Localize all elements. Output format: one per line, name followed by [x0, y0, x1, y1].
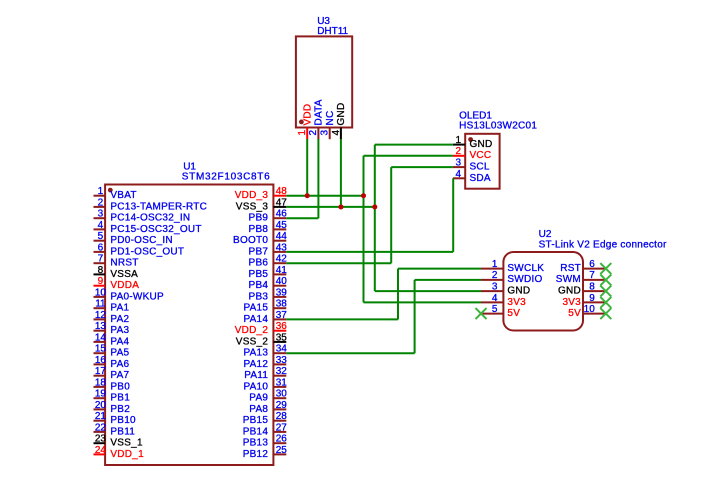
U1 pin 2 (PC13-TAMPER-RTC) [94, 197, 208, 212]
U2 pin 10 (5V) [568, 304, 606, 319]
U1 pin 17 (PA7) [94, 366, 130, 381]
U1 pin 15 (PA5) [94, 344, 130, 359]
svg-text:SDA: SDA [470, 173, 491, 184]
svg-text:8: 8 [98, 265, 104, 276]
svg-text:PA7: PA7 [110, 370, 129, 381]
svg-text:GND: GND [470, 139, 493, 150]
svg-text:PC15-OSC32_OUT: PC15-OSC32_OUT [110, 224, 201, 235]
svg-text:PB1: PB1 [110, 393, 130, 404]
U1 pin 48 (VDD_3) [235, 186, 288, 201]
svg-text:PC14-OSC32_IN: PC14-OSC32_IN [110, 213, 190, 224]
svg-text:VDD_3: VDD_3 [235, 190, 269, 201]
svg-text:PB14: PB14 [243, 426, 269, 437]
U1 pin 22 (PB11) [94, 422, 136, 437]
svg-text:SWM: SWM [556, 274, 581, 285]
svg-text:8: 8 [589, 282, 595, 293]
svg-text:9: 9 [589, 293, 595, 304]
sensor U3 DHT11 [296, 36, 352, 127]
U1 pin 44 (BOOT0) [233, 231, 287, 246]
U1 pin 21 (PB10) [94, 411, 137, 426]
svg-text:23: 23 [95, 434, 107, 445]
svg-text:5: 5 [98, 231, 104, 242]
svg-text:VDD_2: VDD_2 [235, 325, 269, 336]
svg-text:21: 21 [95, 411, 107, 422]
svg-text:5V: 5V [507, 308, 520, 319]
U1 pin 29 (PA8) [249, 400, 287, 415]
OLED1 pin 3 (SCL) [453, 158, 490, 173]
svg-text:22: 22 [95, 422, 107, 433]
svg-text:32: 32 [276, 366, 288, 377]
svg-text:45: 45 [276, 220, 288, 231]
junction GND at DHT11 GND tap [338, 204, 343, 209]
wire net SDA: to U1 pin43 PB7 [286, 251, 453, 253]
OLED1 pin 2 (VCC) [453, 146, 491, 161]
svg-text:GND: GND [558, 286, 581, 297]
U2 pin 4 (3V3) [481, 293, 526, 308]
svg-text:33: 33 [276, 355, 288, 366]
wire net VDD_3: riser to U2 pin4 3V3 [364, 301, 482, 303]
U1 pin 8 (VSSA) [94, 265, 139, 280]
wire net DHT_DATA: to U1 pin46 PB9 [286, 217, 318, 219]
svg-text:PA15: PA15 [243, 303, 268, 314]
U1 pin 28 (PB15) [243, 411, 288, 426]
svg-text:16: 16 [95, 355, 107, 366]
svg-text:26: 26 [276, 434, 288, 445]
svg-text:2: 2 [456, 146, 462, 157]
svg-text:PB7: PB7 [249, 246, 269, 257]
svg-text:VSSA: VSSA [110, 269, 138, 280]
OLED1 pin 1 (GND) [453, 135, 493, 150]
svg-text:NC: NC [325, 111, 336, 126]
svg-text:25: 25 [276, 445, 288, 456]
svg-text:PA12: PA12 [243, 359, 268, 370]
svg-text:VSS_1: VSS_1 [110, 438, 143, 449]
svg-text:4: 4 [456, 169, 462, 180]
svg-text:VCC: VCC [470, 150, 492, 161]
svg-text:5V: 5V [568, 308, 581, 319]
junction VDD_3 at OLED/U2 riser [361, 193, 366, 198]
wire net VDD_3: DHT11 VDD drop to U1 pin48 rail [306, 139, 308, 196]
wire net SCL: to U1 pin42 PB6 [286, 262, 391, 264]
wire net VDD_3: U1 pin48 to OLED1 VCC branch point [286, 195, 363, 197]
svg-text:24: 24 [95, 445, 107, 456]
svg-text:44: 44 [276, 231, 288, 242]
U1 pin 7 (NRST) [94, 254, 139, 269]
U1 pin-1 marker dot [108, 188, 113, 193]
no-connect flag U2 pin 8 [600, 286, 611, 297]
wire net GND: vertical riser OLED1 GND to U2 GND [374, 145, 376, 292]
svg-text:STM32F103C8T6: STM32F103C8T6 [182, 172, 271, 183]
wire net GND: riser to U2 pin3 GND [375, 290, 481, 292]
U3 pin 2 (DATA) [308, 99, 324, 139]
svg-text:PB3: PB3 [249, 291, 269, 302]
OLED1 pin 4 (SDA) [453, 169, 491, 184]
svg-text:2: 2 [492, 270, 498, 281]
svg-text:BOOT0: BOOT0 [233, 235, 268, 246]
svg-text:7: 7 [589, 270, 595, 281]
U1 pin 43 (PB7) [249, 242, 288, 257]
svg-text:35: 35 [276, 332, 288, 343]
svg-text:3: 3 [98, 209, 104, 220]
svg-text:4: 4 [492, 293, 498, 304]
svg-text:PA8: PA8 [249, 404, 268, 415]
svg-text:6: 6 [98, 242, 104, 253]
svg-text:10: 10 [584, 304, 596, 315]
U2 pin 8 (GND) [558, 282, 606, 297]
display connector OLED1 HS13L03W2C01 [465, 134, 499, 189]
svg-text:40: 40 [276, 276, 288, 287]
svg-text:17: 17 [95, 366, 107, 377]
U1 pin 1 (VBAT) [94, 186, 137, 201]
U1 pin 25 (PB12) [243, 445, 288, 460]
U1 pin 45 (PB8) [249, 220, 288, 235]
svg-text:PA11: PA11 [244, 370, 268, 381]
svg-text:6: 6 [589, 259, 595, 270]
U1 pin 13 (PA3) [94, 321, 130, 336]
svg-text:DATA: DATA [314, 99, 325, 125]
svg-text:1: 1 [98, 186, 104, 197]
svg-text:18: 18 [95, 377, 107, 388]
svg-text:PA0-WKUP: PA0-WKUP [110, 291, 164, 302]
U1 pin 11 (PA1) [94, 299, 130, 314]
U1 pin 40 (PB4) [249, 276, 288, 291]
svg-text:PA2: PA2 [110, 314, 129, 325]
svg-text:PB8: PB8 [249, 224, 269, 235]
svg-text:PB9: PB9 [249, 213, 269, 224]
svg-text:DHT11: DHT11 [317, 26, 348, 37]
U2 pin 7 (SWM) [556, 270, 606, 285]
wire net SCL: riser down [390, 167, 392, 263]
svg-text:5: 5 [492, 304, 498, 315]
svg-text:NRST: NRST [110, 258, 138, 269]
wire net SWDIO: to U1 pin34 PA13 [286, 352, 414, 354]
no-connect flag U2 pin 6 [600, 263, 611, 274]
U1 pin 38 (PA15) [243, 299, 287, 314]
junction VDD_3 at DHT11 VDD tap [305, 193, 310, 198]
svg-text:PA1: PA1 [110, 303, 129, 314]
svg-text:VSS_3: VSS_3 [236, 201, 269, 212]
U2 pin 2 (SWDIO) [481, 270, 543, 285]
U1 pin 33 (PA12) [243, 355, 287, 370]
no-connect flag U2 pin 7 [600, 274, 611, 285]
svg-text:HS13L03W2C01: HS13L03W2C01 [459, 121, 537, 132]
svg-text:PB0: PB0 [110, 381, 130, 392]
svg-text:3: 3 [456, 158, 462, 169]
no-connect flag U2 pin 5 (5V) [476, 308, 487, 319]
svg-text:4: 4 [331, 130, 342, 136]
svg-text:3V3: 3V3 [562, 297, 581, 308]
svg-text:13: 13 [95, 321, 107, 332]
svg-text:U2: U2 [539, 229, 552, 240]
svg-text:SCL: SCL [470, 162, 490, 173]
OLED1 pin-1 marker dot [468, 137, 473, 142]
wire net GND: OLED1 GND to vertical riser [375, 144, 453, 146]
U1 pin 24 (VDD_1) [94, 445, 145, 460]
U1 pin 36 (VDD_2) [235, 321, 288, 336]
U1 pin 3 (PC14-OSC32_IN) [94, 209, 191, 224]
U2 pin 6 (RST) [560, 259, 606, 274]
wire net SWCLK: to U1 pin37 PA14 [286, 318, 398, 320]
wire net GND: DHT11 GND drop to U1 pin47 rail [340, 139, 342, 207]
U2 pin 9 (3V3) [562, 293, 605, 308]
svg-text:SWDIO: SWDIO [507, 274, 542, 285]
svg-text:1: 1 [492, 259, 498, 270]
svg-text:42: 42 [276, 254, 288, 265]
svg-text:46: 46 [276, 209, 288, 220]
svg-text:PA13: PA13 [243, 348, 268, 359]
U2 pin 1 (SWCLK) [481, 259, 544, 274]
svg-text:3V3: 3V3 [507, 297, 526, 308]
U1 pin 41 (PB5) [249, 265, 288, 280]
svg-text:1: 1 [297, 130, 308, 136]
connector U2 ST-Link V2 Edge connector [503, 252, 583, 331]
svg-text:4: 4 [98, 220, 104, 231]
wire net SWCLK: riser down [397, 269, 399, 320]
svg-text:PB10: PB10 [110, 415, 136, 426]
no-connect flag U2 pin 9 [600, 297, 611, 308]
U2 pin 3 (GND) [481, 282, 530, 297]
U1 pin 35 (VSS_2) [236, 332, 287, 347]
U1 pin 30 (PA9) [249, 389, 287, 404]
U3 pin 1 (VDD) [297, 104, 313, 140]
wire net SWDIO: U2 pin2 to riser [415, 279, 481, 281]
svg-text:12: 12 [95, 310, 107, 321]
svg-text:3: 3 [320, 130, 331, 136]
U3 pin 3 (NC) [320, 111, 336, 140]
U1 pin 31 (PA10) [243, 377, 287, 392]
wire net VDD_3: vertical riser OLED1 VCC to U2 3V3 [363, 156, 365, 303]
wire net VDD_3: OLED1 VCC to vertical riser [364, 155, 453, 157]
U1 pin 19 (PB1) [94, 389, 131, 404]
svg-text:VDD_1: VDD_1 [110, 449, 144, 460]
U1 pin 20 (PB2) [94, 400, 131, 415]
U1 pin 34 (PA13) [243, 344, 287, 359]
U1 pin 37 (PA14) [243, 310, 287, 325]
U1 pin 32 (PA11) [244, 366, 287, 381]
svg-text:43: 43 [276, 242, 288, 253]
svg-text:31: 31 [276, 377, 288, 388]
svg-text:PA14: PA14 [243, 314, 268, 325]
svg-text:PB13: PB13 [243, 438, 269, 449]
svg-text:PB6: PB6 [249, 258, 269, 269]
U1 pin 10 (PA0-WKUP) [94, 287, 164, 302]
svg-text:PB2: PB2 [110, 404, 130, 415]
svg-text:38: 38 [276, 299, 288, 310]
svg-text:30: 30 [276, 389, 288, 400]
svg-text:10: 10 [95, 287, 107, 298]
U1 pin 39 (PB3) [249, 287, 288, 302]
svg-text:47: 47 [276, 197, 288, 208]
svg-text:3: 3 [492, 282, 498, 293]
U1 pin 14 (PA4) [94, 332, 130, 347]
U1 pin 9 (VDDA) [94, 276, 140, 291]
svg-text:PA6: PA6 [110, 359, 129, 370]
svg-text:41: 41 [276, 265, 288, 276]
svg-text:9: 9 [98, 276, 104, 287]
svg-text:RST: RST [560, 263, 581, 274]
svg-text:PA9: PA9 [249, 393, 268, 404]
U1 pin 42 (PB6) [249, 254, 288, 269]
svg-text:PB4: PB4 [249, 280, 269, 291]
svg-text:39: 39 [276, 287, 288, 298]
U1 pin 5 (PD0-OSC_IN) [94, 231, 173, 246]
svg-text:48: 48 [276, 186, 288, 197]
svg-text:PB15: PB15 [243, 415, 269, 426]
svg-text:PA5: PA5 [110, 348, 129, 359]
svg-text:GND: GND [507, 286, 530, 297]
svg-text:2: 2 [308, 130, 319, 136]
svg-text:14: 14 [95, 332, 107, 343]
svg-text:34: 34 [276, 344, 288, 355]
svg-text:VDDA: VDDA [110, 280, 139, 291]
wire net DHT_DATA: DHT11 pin2 DATA down [317, 139, 319, 218]
svg-text:VDD: VDD [302, 104, 313, 126]
svg-text:PC13-TAMPER-RTC: PC13-TAMPER-RTC [110, 201, 207, 212]
svg-text:7: 7 [98, 254, 104, 265]
svg-text:ST-Link V2 Edge connector: ST-Link V2 Edge connector [539, 240, 667, 251]
svg-text:PA4: PA4 [110, 336, 129, 347]
svg-text:20: 20 [95, 400, 107, 411]
U2 pin 5 (5V) [481, 304, 520, 319]
U3 pin-1 marker dot [299, 120, 304, 125]
wire net SWDIO: riser down [414, 280, 416, 353]
IC U1 STM32F103C8T6 [105, 185, 273, 466]
U1 pin 26 (PB13) [243, 434, 288, 449]
svg-text:1: 1 [456, 135, 462, 146]
svg-text:VBAT: VBAT [110, 190, 136, 201]
U1 pin 16 (PA6) [94, 355, 130, 370]
wire net SWCLK: U2 pin1 to riser [398, 268, 481, 270]
svg-text:GND: GND [336, 103, 347, 126]
svg-text:PD1-OSC_OUT: PD1-OSC_OUT [110, 246, 184, 257]
U1 pin 23 (VSS_1) [94, 434, 143, 449]
U1 pin 12 (PA2) [94, 310, 130, 325]
svg-text:VSS_2: VSS_2 [236, 336, 269, 347]
svg-text:37: 37 [276, 310, 288, 321]
U1 pin 47 (VSS_3) [236, 197, 287, 212]
svg-text:PB5: PB5 [249, 269, 269, 280]
svg-text:36: 36 [276, 321, 288, 332]
wire net SCL: OLED1 pin3 to riser [391, 166, 453, 168]
svg-text:28: 28 [276, 411, 288, 422]
U1 pin 46 (PB9) [249, 209, 288, 224]
svg-text:PB12: PB12 [243, 449, 269, 460]
U1 pin 27 (PB14) [243, 422, 288, 437]
svg-text:29: 29 [276, 400, 288, 411]
svg-text:19: 19 [95, 389, 107, 400]
U1 pin 4 (PC15-OSC32_OUT) [94, 220, 202, 235]
U3 pin 4 (GND) [331, 103, 347, 140]
junction GND at OLED/U2 riser [372, 204, 377, 209]
wire net SDA: OLED1 pin4 down [452, 178, 454, 252]
svg-text:PA3: PA3 [110, 325, 129, 336]
svg-text:PB11: PB11 [110, 426, 135, 437]
no-connect flag U2 pin 10 [600, 308, 611, 319]
svg-text:PA10: PA10 [243, 381, 268, 392]
svg-text:11: 11 [95, 299, 106, 310]
svg-text:27: 27 [276, 422, 288, 433]
svg-text:2: 2 [98, 197, 104, 208]
wire net GND: U1 pin47 to riser [286, 206, 375, 208]
svg-text:15: 15 [95, 344, 107, 355]
svg-text:SWCLK: SWCLK [507, 263, 544, 274]
U1 pin 6 (PD1-OSC_OUT) [94, 242, 185, 257]
svg-text:PD0-OSC_IN: PD0-OSC_IN [110, 235, 173, 246]
U1 pin 18 (PB0) [94, 377, 131, 392]
